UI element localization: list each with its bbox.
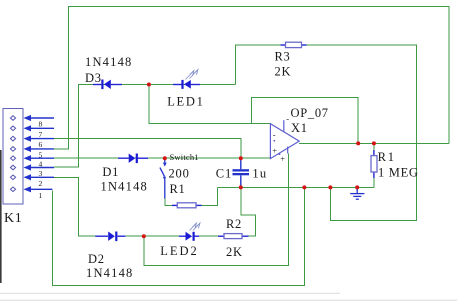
svg-text:D1: D1 [102, 165, 119, 179]
svg-text:8: 8 [39, 120, 43, 129]
svg-text:R1: R1 [170, 182, 186, 196]
svg-text:1N4148: 1N4148 [85, 55, 132, 69]
svg-text:LED1: LED1 [167, 95, 204, 109]
svg-text:X1: X1 [291, 121, 308, 135]
svg-text:3: 3 [39, 169, 43, 178]
svg-text:D2: D2 [88, 252, 105, 266]
svg-text:R2: R2 [226, 217, 242, 231]
svg-text:Switch1: Switch1 [170, 152, 199, 162]
svg-text:2K: 2K [275, 65, 292, 79]
svg-text:5: 5 [39, 150, 43, 159]
svg-text:-: - [273, 130, 276, 140]
svg-text:1N4148: 1N4148 [86, 266, 133, 280]
svg-text:K1: K1 [4, 211, 23, 226]
svg-text:4: 4 [39, 160, 43, 169]
svg-text:1 MEG: 1 MEG [378, 166, 419, 180]
svg-text:1u: 1u [252, 167, 267, 181]
svg-text:2: 2 [39, 179, 43, 188]
svg-text:+: + [272, 146, 277, 156]
svg-text:1N4148: 1N4148 [101, 180, 148, 194]
svg-text:2K: 2K [226, 245, 243, 259]
svg-text:7: 7 [39, 130, 43, 139]
svg-text:D3: D3 [85, 71, 102, 85]
svg-text:1: 1 [39, 191, 43, 200]
svg-text:+: + [280, 154, 285, 164]
svg-text:R1: R1 [378, 150, 396, 164]
svg-text:OP_07: OP_07 [291, 106, 329, 120]
svg-text:R3: R3 [275, 50, 291, 64]
svg-text:200: 200 [169, 167, 190, 181]
svg-text:6: 6 [39, 140, 43, 149]
svg-text:-: - [286, 114, 289, 124]
svg-text:C1: C1 [216, 167, 233, 181]
svg-text:LED2: LED2 [160, 244, 199, 258]
